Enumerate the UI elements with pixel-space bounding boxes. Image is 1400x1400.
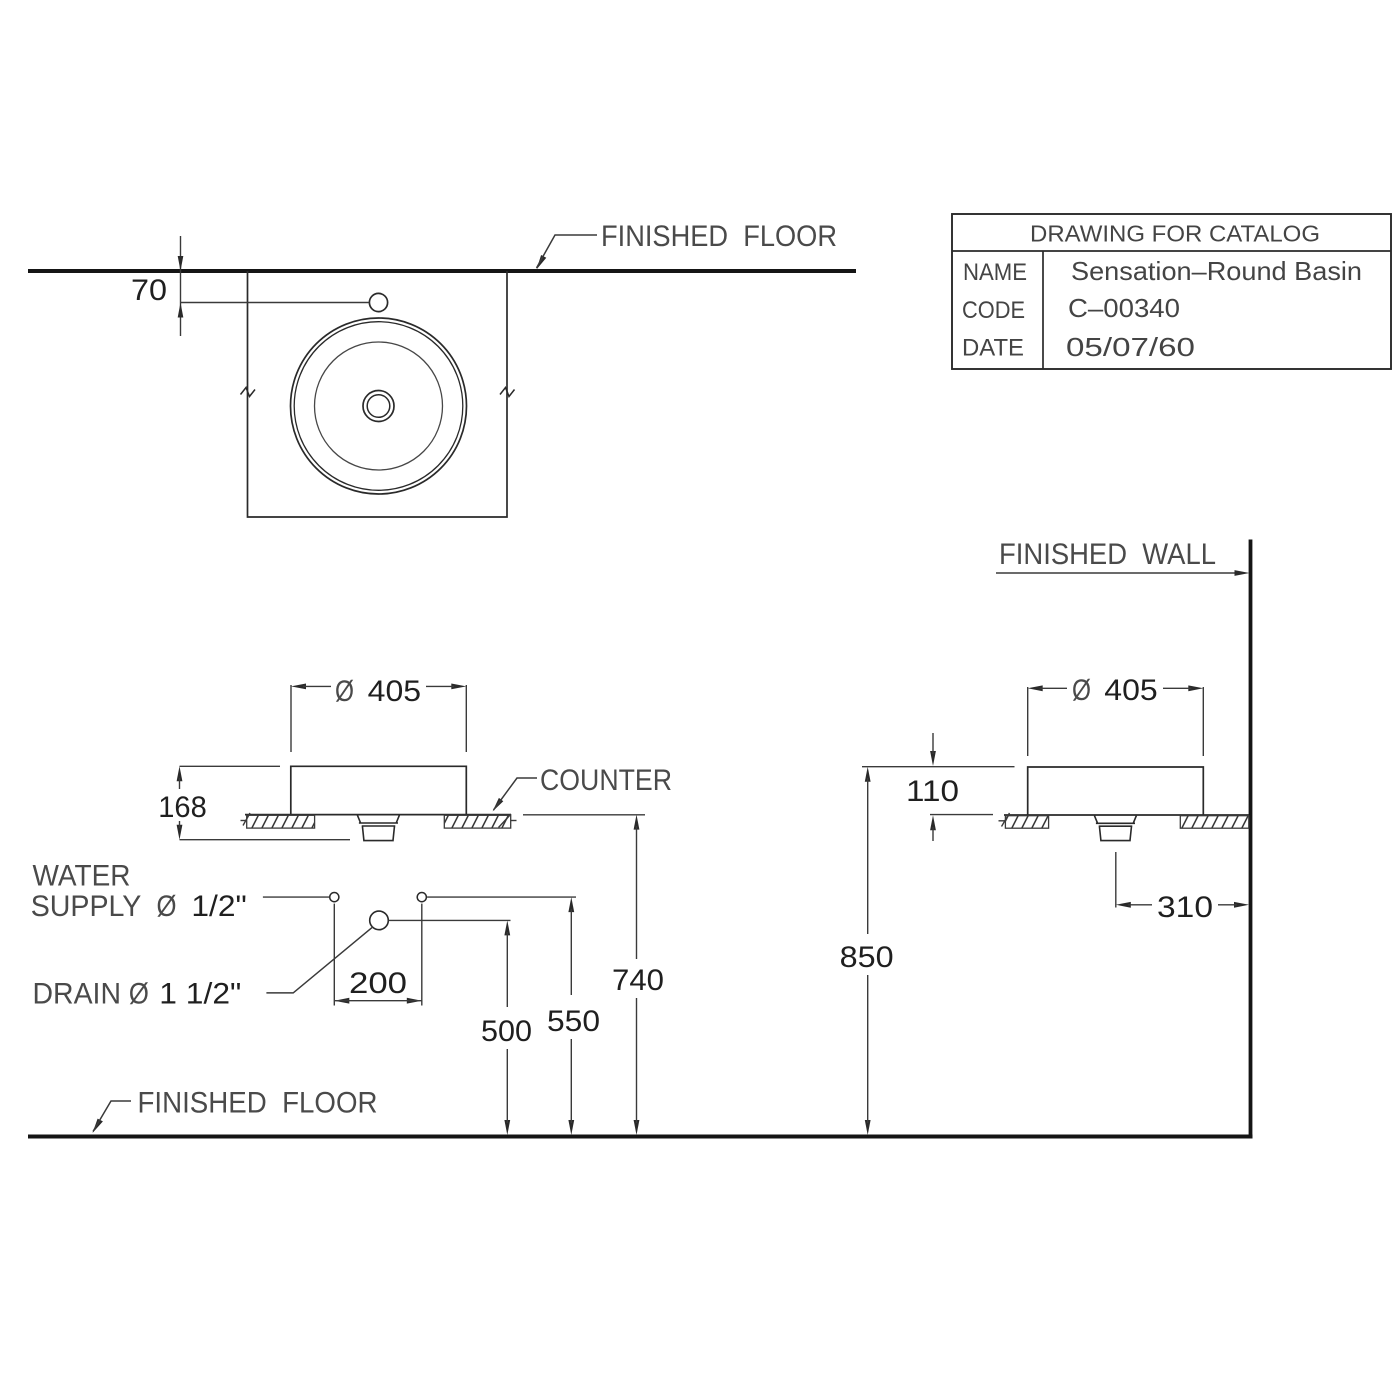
title block: vertical divider line — [1042, 251, 1044, 369]
svg-text:70: 70 — [131, 274, 167, 307]
side view: dim text 850 — [840, 941, 894, 974]
svg-text:DRAIN: DRAIN — [33, 978, 122, 1011]
side view: dim 110 bottom extension line — [930, 814, 993, 816]
front view: water supply leader line — [263, 896, 330, 898]
plan view: FINISHED FLOOR leader — [537, 235, 598, 270]
side view: finished wall line (thick) — [1249, 540, 1253, 1137]
front view: extension from right supply hole for dim 550 — [427, 896, 576, 898]
front view: FINISHED FLOOR leader — [93, 1101, 132, 1133]
front view: dim text 200 — [349, 967, 407, 1000]
svg-text:WATER: WATER — [33, 860, 131, 893]
front view: extension from drain hole for dim 500 — [389, 919, 511, 921]
title block: NAME label — [963, 259, 1027, 286]
svg-text:110: 110 — [906, 775, 959, 808]
svg-text:168: 168 — [158, 791, 207, 824]
front view: water supply hole right — [417, 893, 426, 902]
title block: CODE value C-00340 — [1068, 293, 1180, 323]
front view: FINISHED FLOOR label — [138, 1087, 378, 1120]
front view: dim 405 dimension line with arrows — [291, 684, 466, 690]
front view: dim 740 line and arrows — [634, 815, 640, 1135]
svg-text:1/2": 1/2" — [191, 890, 246, 923]
side view: drain fitting — [1094, 816, 1136, 841]
svg-text:NAME: NAME — [963, 259, 1027, 286]
side view: dim 850 line and arrows — [865, 767, 871, 1135]
svg-text:310: 310 — [1157, 891, 1213, 924]
side view: counter hatch right — [1180, 816, 1249, 829]
side view: dim text 110 — [906, 775, 959, 808]
svg-text:FINISHED FLOOR: FINISHED FLOOR — [138, 1087, 378, 1120]
svg-text:05/07/60: 05/07/60 — [1066, 332, 1195, 362]
side view: counter cut tick left — [999, 813, 1010, 827]
svg-text:200: 200 — [349, 967, 407, 1000]
title block: DATE label — [962, 335, 1024, 362]
front view: dim 550 line and arrows — [568, 897, 574, 1135]
plan view: basin outer rim circle — [291, 318, 467, 494]
front view: dim 740 top extension line — [523, 814, 645, 816]
svg-text:SUPPLY: SUPPLY — [31, 890, 142, 923]
front view: counter cut tick right — [499, 814, 517, 828]
front view: drain hole circle — [370, 911, 389, 930]
side view: dim 405 dimension line with arrows — [1028, 685, 1204, 691]
svg-text:FINISHED WALL: FINISHED WALL — [999, 538, 1216, 571]
svg-text:740: 740 — [612, 964, 664, 997]
side view: dim text 310 — [1157, 891, 1213, 924]
front view: drain fitting — [357, 815, 399, 840]
title block: NAME value Sensation-Round Basin — [1071, 256, 1362, 286]
svg-text:Ø: Ø — [129, 978, 149, 1011]
front view: dim text 500 — [481, 1015, 532, 1048]
plan view: FINISHED FLOOR label — [601, 220, 837, 253]
side view: counter top line — [1004, 814, 1249, 816]
plan view: basin inner bowl circle — [315, 342, 443, 470]
front view: basin body — [291, 766, 467, 814]
svg-text:Ø: Ø — [1072, 674, 1091, 707]
finished floor line (thick) — [28, 1135, 1253, 1139]
svg-text:DRAWING FOR CATALOG: DRAWING FOR CATALOG — [1030, 221, 1320, 247]
front view: dim 500 line and arrows — [504, 920, 510, 1135]
svg-text:DATE: DATE — [962, 335, 1024, 362]
svg-text:500: 500 — [481, 1015, 532, 1048]
front view: DRAIN label — [33, 978, 242, 1011]
front view: drain leader line — [266, 927, 373, 993]
plan view: finished floor line (thick) — [28, 269, 856, 273]
front view: dim 200 extension lines — [334, 904, 422, 1006]
front view: counter hatch right — [444, 815, 510, 828]
front view: dim 200 line and arrows — [334, 998, 422, 1004]
front view: water supply hole left — [330, 893, 339, 902]
svg-text:405: 405 — [368, 675, 421, 708]
svg-text:Sensation–Round Basin: Sensation–Round Basin — [1071, 256, 1362, 286]
front view: COUNTER leader — [493, 778, 538, 812]
plan view: faucet hole circle — [369, 293, 387, 311]
side view: dim 110 arrows — [930, 733, 936, 841]
front view: counter hatch left — [247, 815, 315, 828]
svg-text:550: 550 — [547, 1005, 600, 1038]
plan view: dim text 70 — [131, 274, 167, 307]
title block: header divider line — [952, 250, 1391, 252]
side view: dim 310 line and arrows — [1116, 902, 1249, 908]
front view: dim text 550 — [547, 1005, 600, 1038]
plan view: basin second rim circle — [294, 322, 463, 491]
side view: dim 405 extension lines — [1028, 687, 1204, 756]
svg-text:Ø: Ø — [157, 890, 177, 923]
plan view: counter square outline — [248, 271, 508, 517]
svg-text:C–00340: C–00340 — [1068, 293, 1180, 323]
front view: dim text 740 — [612, 964, 664, 997]
side view: dim 110 top extension line — [862, 766, 1015, 768]
front view: counter top line — [245, 814, 511, 816]
svg-text:1 1/2": 1 1/2" — [159, 978, 241, 1011]
plan view: drain outer circle — [363, 391, 394, 422]
svg-text:FINISHED FLOOR: FINISHED FLOOR — [601, 220, 837, 253]
front view: counter cut tick left — [241, 813, 251, 826]
plan view: drain inner circle — [367, 395, 390, 418]
plan view: break mark right edge — [500, 388, 515, 397]
side view: FINISHED WALL label — [999, 538, 1216, 571]
title block: outer box — [952, 214, 1391, 369]
svg-text:405: 405 — [1104, 674, 1157, 707]
front view: WATER SUPPLY label — [31, 860, 247, 923]
svg-text:CODE: CODE — [962, 297, 1025, 324]
svg-text:850: 850 — [840, 941, 894, 974]
plan view: break mark left edge — [241, 388, 256, 397]
front view: dim text 168 — [158, 791, 207, 824]
front view: dim 405 extension lines — [291, 685, 466, 752]
title block: CODE label — [962, 297, 1025, 324]
side view: dim 310 extension line from drain — [1115, 852, 1117, 908]
plan view: dim 70 extension and arrows — [178, 236, 370, 336]
svg-text:COUNTER: COUNTER — [540, 764, 672, 797]
front view: COUNTER label — [540, 764, 672, 797]
side view: counter hatch left — [1005, 816, 1048, 829]
title block: header text DRAWING FOR CATALOG — [1030, 221, 1320, 247]
side view: FINISHED WALL leader with arrow — [996, 570, 1250, 576]
front view: dim 168 line and arrows — [177, 766, 183, 839]
front view: dim text diameter 405 — [335, 675, 421, 708]
title block: DATE value 05/07/60 — [1066, 332, 1195, 362]
side view: basin body — [1028, 767, 1204, 815]
front view: dim 168 extension lines — [180, 766, 351, 839]
side view: dim text diameter 405 — [1072, 674, 1158, 707]
svg-text:Ø: Ø — [335, 675, 354, 708]
